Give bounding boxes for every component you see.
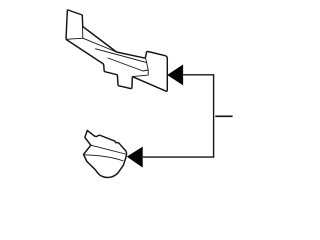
part 1 outline: upper bracket [66, 10, 167, 91]
part 2 inner fold lines [84, 145, 126, 161]
part 1 inner fold lines [66, 27, 148, 77]
callout arrow to part 2 [127, 147, 142, 167]
callout arrow to part 1 [168, 65, 183, 85]
label tick [215, 115, 232, 117]
part 2 outline: lower clip [84, 130, 127, 177]
connector lines [143, 75, 214, 157]
